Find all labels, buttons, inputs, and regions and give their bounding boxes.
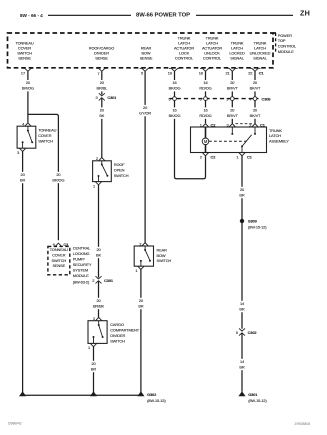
- svg-text:SWITCH: SWITCH: [110, 338, 125, 343]
- trunk latch pin 3 C1 (top): [227, 122, 236, 127]
- cargo compartment divider switch label: [110, 322, 140, 343]
- svg-text:BR: BR: [239, 365, 244, 370]
- svg-text:SIGNAL: SIGNAL: [230, 55, 245, 60]
- svg-text:21: 21: [226, 70, 230, 75]
- svg-text:16: 16: [172, 80, 176, 85]
- module internal label: trunk latch actuator unlock control: [202, 35, 222, 60]
- wire branch col1 to central locking module: [28, 114, 59, 240]
- wire col2: roof open switch to connector C301 cavity 2: [98, 185, 100, 278]
- svg-text:CONTROL: CONTROL: [278, 44, 297, 49]
- wire label 20 BR col2 ground: [86, 361, 101, 372]
- wire col7: module pin 22 to connector C308: [254, 71, 256, 96]
- roof open switch box: [93, 161, 112, 182]
- svg-text:2: 2: [249, 122, 251, 127]
- header rule left segment: [48, 14, 131, 16]
- svg-text:3: 3: [226, 96, 228, 101]
- svg-text:DIVIDER: DIVIDER: [110, 333, 125, 338]
- svg-text:BOW: BOW: [157, 253, 166, 258]
- rear bow switch pin 2: [139, 241, 148, 246]
- rear bow switch contacts and arm: [140, 246, 151, 266]
- svg-text:SENSE: SENSE: [95, 55, 108, 60]
- svg-text:BR/VT: BR/VT: [227, 113, 239, 118]
- svg-text:TONNEAU: TONNEAU: [38, 128, 56, 133]
- svg-text:(8W-15-12): (8W-15-12): [248, 398, 267, 403]
- svg-text:1: 1: [236, 154, 238, 159]
- trunk latch switch arm and common: [241, 135, 252, 153]
- trunk latch pin 1 C1 (bottom): [236, 153, 252, 160]
- svg-text:PUMP/: PUMP/: [73, 257, 86, 262]
- svg-text:18: 18: [199, 71, 203, 76]
- svg-text:ASSEMBLY: ASSEMBLY: [269, 139, 289, 144]
- svg-text:19: 19: [168, 71, 172, 76]
- svg-text:3: 3: [17, 150, 19, 155]
- wire col4: module pin 19 to connector C308: [174, 71, 176, 96]
- svg-text:RD/OG: RD/OG: [199, 86, 211, 91]
- rear bow switch pin 1: [135, 266, 144, 273]
- cargo compartment divider switch box: [88, 321, 107, 344]
- svg-text:SECURITY: SECURITY: [73, 262, 92, 267]
- tonneau cover switch label: [38, 128, 56, 144]
- svg-text:BK/VT: BK/VT: [250, 113, 261, 118]
- svg-text:OPEN: OPEN: [114, 167, 125, 172]
- wire label 20 BR/BK: [91, 298, 106, 309]
- module pin 5: [140, 68, 151, 75]
- tonneau cover switch box: [17, 126, 36, 148]
- svg-text:16: 16: [172, 108, 176, 113]
- svg-text:SWITCH: SWITCH: [38, 138, 53, 143]
- svg-text:3: 3: [96, 95, 98, 100]
- wire label 14 BR above C302: [235, 301, 250, 312]
- svg-text:RD/OG: RD/OG: [199, 113, 211, 118]
- svg-text:C302: C302: [248, 330, 258, 335]
- svg-text:2: 2: [92, 278, 94, 283]
- svg-text:8W-66 POWER TOP: 8W-66 POWER TOP: [136, 12, 190, 18]
- svg-text:2: 2: [96, 156, 98, 161]
- svg-text:MODULE: MODULE: [278, 49, 294, 54]
- module pin 21: [226, 68, 238, 75]
- svg-text:C308: C308: [262, 96, 272, 101]
- connector C308 cavity 5: [168, 96, 176, 101]
- svg-text:BK/OG: BK/OG: [169, 113, 181, 118]
- roof open switch label: [114, 162, 129, 178]
- svg-text:REAR: REAR: [157, 247, 168, 252]
- svg-text:16: 16: [203, 108, 207, 113]
- central locking pump/security system module dashed box: [48, 246, 70, 274]
- wire label 20 BR col3 ground: [133, 298, 148, 309]
- svg-text:G302: G302: [147, 392, 157, 397]
- svg-text:BR: BR: [91, 367, 96, 372]
- module internal label: rear bow sense: [140, 45, 153, 60]
- svg-text:5: 5: [236, 330, 238, 335]
- svg-text:COMPARTMENT: COMPARTMENT: [110, 328, 140, 333]
- wire label 20 BR latch ground: [235, 187, 250, 198]
- svg-text:S309: S309: [248, 219, 258, 224]
- wire label 20 BR/VT upper: [225, 80, 240, 91]
- wire label 20 BR/OG col1: [20, 80, 35, 91]
- svg-text:BR: BR: [20, 178, 25, 183]
- svg-text:BR: BR: [239, 307, 244, 312]
- svg-text:LOCKING: LOCKING: [73, 251, 90, 256]
- svg-text:ROOF: ROOF: [114, 162, 126, 167]
- trunk latch switch contact from pin 3: [231, 127, 233, 135]
- trunk latch pin 2 C2 (bottom): [200, 153, 216, 160]
- svg-text:BR: BR: [239, 193, 244, 198]
- module internal label: tonneau cover switch sense: [15, 40, 33, 60]
- trunk latch switch contact from pin 2: [254, 127, 256, 135]
- power top control module dashed box: [8, 33, 274, 68]
- splice S309: [240, 219, 267, 230]
- svg-text:SYSTEM: SYSTEM: [73, 268, 88, 273]
- svg-text:TOP: TOP: [278, 38, 286, 43]
- svg-text:G301: G301: [248, 392, 258, 397]
- svg-text:SENSE: SENSE: [53, 263, 66, 268]
- wire col2: C301 to roof open switch: [101, 98, 103, 158]
- module pin 17: [21, 68, 33, 75]
- svg-text:3: 3: [227, 122, 229, 127]
- svg-text:CENTRAL: CENTRAL: [73, 246, 91, 251]
- svg-text:CONTROL: CONTROL: [175, 55, 194, 60]
- svg-text:ZH508804: ZH508804: [295, 422, 311, 426]
- connector C308 cavity 3: [226, 96, 234, 101]
- svg-text:SWITCH: SWITCH: [157, 258, 172, 263]
- wire col2: cargo switch pin 1 to ground bus: [93, 347, 95, 392]
- module pin 18: [199, 68, 211, 75]
- wire label 16 RD/OG upper: [198, 80, 213, 91]
- wire col2: module pin 7 to connector C301: [101, 71, 103, 94]
- wire label 20 BK: [94, 107, 109, 118]
- module internal label: trunk latch locked signal: [229, 40, 245, 60]
- svg-text:CONTROL: CONTROL: [203, 55, 222, 60]
- mechanical dashed link motor to latch switch: [209, 140, 247, 142]
- svg-text:COVER: COVER: [38, 133, 52, 138]
- wire label 16 BK/OG upper: [167, 80, 182, 91]
- cargo switch contacts and arm: [93, 321, 104, 344]
- roof open switch pin 2: [96, 156, 105, 161]
- wire label 16 RD/OG lower: [198, 107, 213, 118]
- svg-text:BK: BK: [99, 113, 104, 118]
- wire label 20 BR col1 ground: [15, 172, 30, 183]
- svg-text:BR/OG: BR/OG: [22, 86, 34, 91]
- module internal label: trunk latch unlocked signal: [250, 40, 271, 60]
- dashed link marking pins 3 and 2 same connector C1: [236, 123, 252, 125]
- connector C308 dashed harness line: [170, 98, 259, 100]
- in-line connector C301 cavity 2: [92, 276, 114, 283]
- trunk latch assembly label: [269, 128, 289, 144]
- tonneau cover switch pin 3: [17, 148, 26, 155]
- wire col6: C308 to trunk latch pin 3 C1: [231, 101, 233, 124]
- wire trunk latch pin 1 C1 to ground G301: [241, 156, 243, 329]
- wire label 14 BR below C302: [235, 359, 250, 370]
- svg-text:TRUNK: TRUNK: [269, 128, 282, 133]
- in-line connector C301 cavity 3: [96, 93, 118, 100]
- svg-text:1: 1: [93, 183, 95, 188]
- wire col5: C308 to trunk latch pin 1 C2: [205, 101, 207, 123]
- svg-text:(8W-63-2): (8W-63-2): [73, 279, 90, 284]
- ground G302: [137, 391, 166, 403]
- svg-text:SENSE: SENSE: [140, 55, 153, 60]
- wire col4: C308 to trunk latch motor (lock control): [175, 101, 206, 179]
- wire col1: module pin 17 to tonneau switch: [27, 71, 29, 122]
- svg-text:2: 2: [200, 154, 202, 159]
- svg-text:2: 2: [93, 316, 95, 321]
- central locking pump/security system module label: [73, 246, 92, 285]
- svg-text:SWITCH: SWITCH: [114, 173, 129, 178]
- central locking module internal label: tonneau cover switch sense: [50, 247, 68, 268]
- cargo switch pin 1: [88, 343, 97, 350]
- module pin 7: [96, 68, 107, 76]
- rear bow switch box: [134, 246, 153, 266]
- ground bus wire: [23, 394, 141, 396]
- wire label 20 BR/VT lower: [225, 107, 240, 118]
- module pin 19: [168, 68, 180, 75]
- wire label 20 BR/BL: [94, 80, 109, 91]
- wire col3: module pin 5 to rear bow switch: [144, 71, 146, 243]
- wire col1: tonneau switch pin 3 to ground bus: [22, 152, 24, 393]
- svg-text:D98W42: D98W42: [8, 422, 22, 426]
- wire label 20 BK/VT upper: [248, 80, 263, 91]
- svg-text:BR/OG: BR/OG: [52, 178, 64, 183]
- svg-text:GY/OR: GY/OR: [139, 111, 151, 116]
- connector C308 cavity 6: [199, 96, 207, 101]
- ground bus junction triangle col2: [90, 391, 97, 396]
- svg-text:22: 22: [248, 71, 252, 76]
- svg-text:(8W-15-12): (8W-15-12): [248, 224, 267, 229]
- svg-text:8W - 66 - 4: 8W - 66 - 4: [20, 13, 43, 18]
- wire col3: rear bow switch pin 1 to ground G302: [140, 270, 142, 393]
- svg-text:5: 5: [168, 96, 170, 101]
- svg-text:7: 7: [97, 71, 99, 76]
- svg-text:BR/BL: BR/BL: [96, 86, 108, 91]
- ground bus junction triangle col1: [19, 391, 26, 396]
- svg-text:1: 1: [88, 345, 90, 350]
- svg-text:ZH: ZH: [300, 9, 310, 18]
- svg-text:5: 5: [141, 71, 143, 76]
- svg-text:17: 17: [21, 70, 25, 75]
- roof open switch pin 1: [93, 182, 102, 189]
- wire col6: module pin 21 to connector C308: [231, 71, 233, 96]
- trunk latch pin 1 C2 (top): [200, 122, 216, 127]
- svg-text:SENSE: SENSE: [18, 55, 31, 60]
- trunk latch assembly box: [191, 127, 267, 153]
- module internal label: trunk latch actuator lock control: [174, 35, 194, 60]
- svg-text:SWITCH: SWITCH: [51, 258, 66, 263]
- trunk latch motor M: [202, 127, 209, 153]
- connector C308 cavity 4: [249, 96, 257, 101]
- roof open switch contacts and arm: [98, 161, 109, 182]
- svg-text:(8W-15-13): (8W-15-13): [147, 398, 166, 403]
- cargo switch pin 2: [93, 316, 102, 321]
- wire label 16 BK/OG lower: [167, 107, 182, 118]
- svg-text:6: 6: [199, 96, 201, 101]
- svg-text:TONNEAU: TONNEAU: [50, 247, 68, 252]
- svg-text:BR/BK: BR/BK: [93, 304, 105, 309]
- svg-text:COVER: COVER: [52, 252, 66, 257]
- svg-text:C301: C301: [104, 278, 114, 283]
- tonneau cover switch pin 4: [22, 122, 31, 127]
- svg-text:2: 2: [139, 241, 141, 246]
- wire col5: module pin 18 to connector C308: [205, 71, 207, 96]
- tonneau cover switch contacts and arm: [22, 126, 34, 148]
- svg-text:C301: C301: [107, 95, 117, 100]
- rear bow switch label: [157, 247, 172, 263]
- svg-text:BK/OG: BK/OG: [169, 86, 181, 91]
- svg-text:SIGNAL: SIGNAL: [253, 55, 268, 60]
- svg-text:BK/VT: BK/VT: [250, 86, 261, 91]
- wire col2: C301 to cargo compartment divider switch: [98, 281, 100, 318]
- module internal label: roof/cargo divider sense: [89, 45, 114, 60]
- svg-text:16: 16: [203, 80, 207, 85]
- svg-text:1: 1: [200, 122, 202, 127]
- wire label 20 BR/OG branch: [51, 172, 66, 183]
- in-line connector C302 cavity 5: [236, 328, 258, 335]
- svg-text:CARGO: CARGO: [110, 322, 124, 327]
- central locking module pin 9 C3: [53, 242, 69, 247]
- module pin 22 with connector C1: [248, 68, 264, 75]
- wire C302 to ground G301: [241, 333, 243, 392]
- power top control module label: [278, 33, 297, 54]
- wire col7: C308 to trunk latch pin 2 C1: [254, 101, 256, 124]
- svg-text:BR: BR: [138, 304, 143, 309]
- svg-text:1: 1: [135, 268, 137, 273]
- svg-text:BK: BK: [96, 253, 101, 258]
- wire label 20 BK lower: [91, 247, 106, 258]
- wire label 20 GY/OR: [138, 105, 153, 116]
- wire label 20 BK/VT lower: [248, 107, 263, 118]
- svg-text:LATCH: LATCH: [269, 133, 281, 138]
- svg-text:BR/VT: BR/VT: [227, 86, 239, 91]
- ground G301: [238, 391, 267, 403]
- header rule right segment: [196, 14, 293, 16]
- trunk latch pin 2 C1 (top): [249, 122, 265, 127]
- svg-text:POWER: POWER: [278, 33, 292, 38]
- svg-text:MODULE: MODULE: [73, 273, 89, 278]
